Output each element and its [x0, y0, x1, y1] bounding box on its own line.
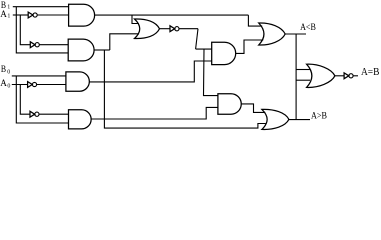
wire stub A=B bottom input	[296, 79, 310, 81]
wire A>B output	[289, 119, 310, 121]
wire A=B out	[335, 75, 344, 77]
svg-text:0: 0	[7, 84, 10, 90]
inverter I2	[30, 42, 35, 48]
wire G4 output riser to G5 bottom input	[89, 61, 211, 82]
svg-text:A: A	[0, 9, 7, 20]
wire A1 branch down	[20, 15, 30, 45]
wire A0 branch down	[20, 85, 30, 115]
svg-text:1: 1	[7, 14, 10, 20]
wire A=B final	[353, 75, 358, 77]
label B1	[0, 0, 379, 121]
wire G6 output down to A>B top input	[241, 104, 265, 113]
or-gate A=B	[307, 64, 335, 87]
wire I2 out to G2 upper input	[39, 44, 68, 46]
wire G2 out branch down to A>B lower input	[104, 50, 265, 128]
svg-text:A<B: A<B	[300, 22, 316, 33]
inverter I1 on A1 line	[28, 12, 33, 18]
wire B0 branch down to G7 lower input	[16, 76, 68, 123]
wire G1 output long run	[95, 14, 249, 16]
wire riser to G3 bottom input	[110, 34, 139, 50]
and-gate G6	[218, 94, 241, 115]
and-gate G1	[69, 4, 95, 26]
svg-text:A: A	[0, 78, 7, 89]
svg-text:1: 1	[7, 5, 10, 11]
wire A<B/A>B vertical to A=B inputs	[295, 34, 297, 120]
wire stub A=B top input	[296, 69, 310, 71]
wire I4 out to G4	[37, 84, 66, 86]
wire x1 to drop	[179, 28, 198, 30]
wire B1 branch down to G2 lower input	[16, 7, 68, 53]
wire G7 output riser to G6 bottom input	[91, 107, 218, 119]
wire G2 output	[94, 49, 110, 51]
wire x1 branch down to G6 top input	[204, 49, 218, 96]
and-gate G5	[212, 42, 236, 64]
svg-text:A>B: A>B	[311, 110, 327, 121]
inverter I4 on A0 line	[28, 82, 33, 88]
inverter I5	[30, 111, 35, 117]
svg-text:A=B: A=B	[361, 67, 380, 78]
wire x1 drop (slight slant)	[196, 29, 198, 49]
wire A1 input to inverter	[13, 14, 28, 16]
or-gate G3	[135, 19, 160, 39]
svg-text:0: 0	[7, 70, 10, 76]
wire B1 input	[13, 6, 69, 8]
wire A0 input to inverter	[12, 84, 28, 86]
wire A<B output	[285, 33, 306, 35]
or-gate A<B	[259, 23, 286, 45]
wire G1 drop to A<B top input	[248, 15, 262, 26]
and-gate G2	[68, 39, 94, 61]
inverter I6	[344, 73, 349, 79]
and-gate G4	[66, 72, 89, 91]
wire drop to G3 top input	[132, 15, 139, 23]
or-gate A>B	[262, 109, 289, 129]
inverter I3	[170, 26, 175, 32]
svg-text:B: B	[1, 64, 7, 75]
wire B0 input	[12, 75, 66, 77]
wire G5 output up to A<B bottom input	[236, 40, 264, 53]
wire I1 out to G1	[37, 14, 68, 16]
wire G3 out	[160, 28, 171, 30]
wire x1 into G5 top input	[196, 48, 212, 50]
and-gate G7	[69, 110, 92, 129]
wire I5 out to G7 upper input	[39, 113, 68, 115]
